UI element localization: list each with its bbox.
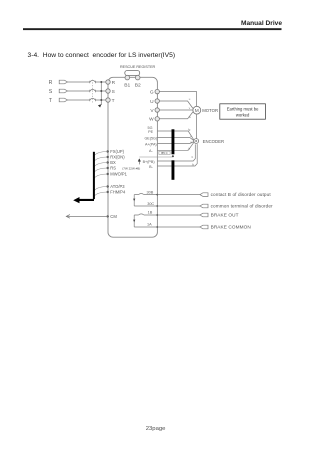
shield cable upper bbox=[172, 129, 175, 154]
svg-text:v: v bbox=[189, 106, 191, 110]
wire MWO curve bbox=[94, 174, 108, 178]
svg-text:BRAKE COMMON: BRAKE COMMON bbox=[211, 225, 251, 230]
node 30C bbox=[156, 205, 158, 207]
svg-text:worked: worked bbox=[236, 112, 250, 117]
terminal MWO/P1 bbox=[107, 172, 128, 177]
control cable bus bbox=[93, 152, 95, 199]
svg-text:S: S bbox=[112, 89, 115, 95]
resistor body bbox=[125, 71, 140, 76]
shield cable lower bbox=[172, 160, 175, 180]
breaker contact R bbox=[90, 80, 96, 83]
svg-text:30C: 30C bbox=[147, 202, 154, 206]
svg-text:B2: B2 bbox=[135, 83, 141, 89]
wire A+ to encoder bbox=[157, 142, 194, 144]
relay wire 1A bbox=[134, 226, 157, 228]
terminal B1 bbox=[124, 75, 130, 88]
wire FX curve bbox=[94, 152, 108, 156]
terminal FHM/P4 bbox=[107, 190, 127, 195]
svg-text:b: b bbox=[192, 155, 194, 159]
wire FHM curve bbox=[94, 192, 108, 196]
output plug 1A bbox=[200, 225, 208, 229]
svg-text:V: V bbox=[150, 108, 154, 114]
svg-text:B+(PB): B+(PB) bbox=[143, 160, 155, 164]
svg-text:u: u bbox=[189, 97, 191, 101]
node 30B bbox=[156, 194, 158, 196]
wire contact T to terminal bbox=[95, 99, 106, 101]
wire contact R to terminal bbox=[95, 81, 106, 83]
svg-text:1A: 1A bbox=[147, 223, 152, 227]
relay link 1 bbox=[133, 215, 135, 227]
relay arrow 30 bbox=[133, 199, 135, 202]
svg-text:R: R bbox=[49, 80, 53, 86]
node 1B bbox=[156, 214, 158, 216]
wire G to motor frame bbox=[157, 92, 196, 107]
svg-text:FX(UP): FX(UP) bbox=[110, 149, 124, 154]
earthing note box bbox=[220, 104, 266, 119]
shield tag box bbox=[159, 151, 170, 155]
wire contact S to terminal bbox=[95, 90, 106, 92]
wire A- to encoder bbox=[157, 142, 194, 150]
svg-text:MWO/P1: MWO/P1 bbox=[110, 172, 127, 177]
wire PE to encoder bbox=[157, 131, 194, 140]
svg-text:BX: BX bbox=[110, 160, 116, 165]
svg-text:G: G bbox=[150, 89, 154, 95]
wire ATO curve bbox=[94, 187, 108, 191]
wire 1B out bbox=[157, 214, 200, 216]
wire T to contact bbox=[68, 99, 90, 101]
wire GE to encoder bbox=[157, 138, 194, 141]
header rule bbox=[23, 28, 282, 30]
encoder E1 bbox=[194, 139, 199, 144]
terminal B2 bbox=[135, 75, 141, 88]
svg-text:M: M bbox=[195, 108, 199, 114]
node T bbox=[100, 99, 102, 101]
relay link 30 bbox=[133, 195, 135, 206]
svg-text:3-4. How to connect encoder: 3-4. How to connect encoder for LS inver… bbox=[28, 52, 176, 59]
svg-text:U: U bbox=[150, 99, 154, 105]
relay arrow 1 bbox=[133, 220, 135, 223]
relay contact 30B bbox=[139, 194, 144, 195]
svg-text:W: W bbox=[149, 117, 154, 123]
svg-text:w: w bbox=[189, 115, 192, 119]
wire U to motor bbox=[157, 101, 193, 108]
terminal FX(UP) bbox=[107, 149, 125, 154]
node R bbox=[100, 81, 102, 83]
breaker linkage bbox=[92, 80, 94, 103]
svg-text:PE: PE bbox=[148, 130, 153, 134]
wire W to motor bbox=[157, 112, 193, 119]
output plug 30C bbox=[200, 204, 208, 208]
terminal CM bbox=[107, 214, 118, 219]
svg-text:23page: 23page bbox=[146, 426, 166, 432]
junction arrow bbox=[98, 104, 102, 107]
control cable run bbox=[78, 199, 95, 201]
svg-text:1B: 1B bbox=[148, 211, 153, 215]
terminal U bbox=[150, 99, 159, 105]
svg-text:RS: RS bbox=[110, 166, 116, 171]
svg-text:common terminal of disorder: common terminal of disorder bbox=[211, 204, 273, 209]
svg-text:(7W 22W #B): (7W 22W #B) bbox=[122, 166, 140, 170]
terminal T bbox=[106, 98, 115, 104]
svg-text:S: S bbox=[49, 89, 53, 95]
inverter block bbox=[108, 77, 157, 237]
svg-text:A-: A- bbox=[149, 149, 153, 153]
breaker contact T bbox=[90, 98, 96, 101]
wire B+ to encoder bbox=[157, 144, 195, 161]
svg-text:CM: CM bbox=[110, 214, 117, 219]
svg-text:R: R bbox=[112, 80, 116, 86]
input plug S bbox=[59, 89, 67, 93]
wire BX curve bbox=[94, 163, 108, 167]
svg-text:contact B of disorder output: contact B of disorder output bbox=[211, 192, 272, 197]
svg-text:MOTOR: MOTOR bbox=[202, 108, 218, 113]
svg-text:a: a bbox=[190, 140, 192, 144]
relay wire 30B bbox=[134, 194, 157, 196]
terminal G bbox=[150, 89, 160, 95]
terminal RX(DN) bbox=[107, 155, 126, 160]
relay wire 30C bbox=[134, 205, 157, 207]
svg-text:BRAKE OUT: BRAKE OUT bbox=[211, 213, 239, 218]
terminal ATO/P3 bbox=[107, 184, 126, 189]
shield junction node bbox=[172, 155, 174, 157]
svg-text:Manual Drive: Manual Drive bbox=[241, 20, 282, 27]
terminal R bbox=[106, 80, 116, 86]
motor M1 bbox=[193, 106, 201, 114]
svg-text:T: T bbox=[49, 98, 53, 104]
CM arrow bbox=[66, 215, 70, 219]
input plug T bbox=[59, 98, 67, 102]
wire 30B out bbox=[157, 194, 200, 196]
svg-text:RX(DN): RX(DN) bbox=[110, 155, 125, 160]
svg-text:GE(5G): GE(5G) bbox=[144, 136, 157, 140]
terminal S bbox=[106, 89, 115, 95]
wire RX curve bbox=[94, 157, 108, 161]
terminal W bbox=[149, 117, 159, 123]
shield drain wire bbox=[139, 156, 172, 158]
breaker contact S bbox=[90, 89, 96, 92]
svg-text:Earthing must be: Earthing must be bbox=[227, 107, 259, 112]
wire 1A out bbox=[157, 226, 200, 228]
terminal RS bbox=[107, 166, 117, 171]
svg-text:B5 C: B5 C bbox=[161, 151, 167, 155]
svg-text:B1: B1 bbox=[124, 83, 130, 89]
node S bbox=[100, 90, 102, 92]
svg-text:30B: 30B bbox=[147, 190, 154, 194]
terminal V bbox=[150, 108, 159, 114]
control cable arrow bbox=[73, 197, 79, 203]
svg-text:ATO/P3: ATO/P3 bbox=[110, 184, 125, 189]
svg-text:A+(PA): A+(PA) bbox=[145, 142, 157, 146]
svg-text:fg: fg bbox=[188, 127, 191, 131]
relay contact 1B bbox=[139, 214, 144, 215]
output plug 1B bbox=[200, 213, 208, 217]
svg-text:FHM/P4: FHM/P4 bbox=[110, 190, 126, 195]
svg-text:ENCODER: ENCODER bbox=[203, 139, 225, 144]
wire R to contact bbox=[68, 81, 90, 83]
terminal BX bbox=[107, 160, 117, 165]
wire RS curve bbox=[94, 168, 108, 172]
node 1A bbox=[156, 226, 158, 228]
wire B- to encoder bbox=[157, 144, 197, 166]
svg-text:RESCUE REGISTER: RESCUE REGISTER bbox=[120, 65, 156, 69]
junction bus line bbox=[100, 82, 102, 105]
output plug 30B bbox=[200, 193, 208, 197]
relay wire 1B bbox=[134, 214, 157, 216]
svg-text:T: T bbox=[112, 98, 115, 104]
wire CM bbox=[67, 215, 108, 217]
input plug R bbox=[59, 80, 67, 84]
wire S to contact bbox=[68, 90, 90, 92]
shield arrow bbox=[138, 159, 140, 165]
motor-encoder shaft wire bbox=[196, 114, 198, 139]
wire 30C out bbox=[157, 205, 200, 207]
svg-text:B-: B- bbox=[149, 165, 153, 169]
wire V to motor bbox=[157, 109, 193, 111]
